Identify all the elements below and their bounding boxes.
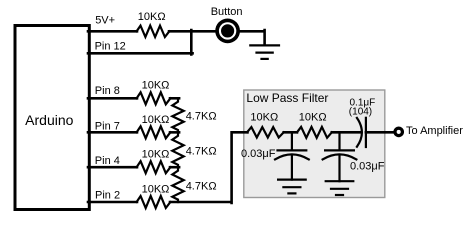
svg-text:10KΩ: 10KΩ (142, 149, 170, 161)
svg-text:4.7KΩ: 4.7KΩ (186, 146, 217, 158)
svg-text:Pin 8: Pin 8 (95, 85, 120, 97)
svg-text:5V+: 5V+ (95, 15, 115, 27)
svg-text:Pin 2: Pin 2 (95, 189, 120, 201)
svg-text:4.7KΩ: 4.7KΩ (186, 111, 217, 123)
svg-text:To Amplifier: To Amplifier (406, 125, 463, 137)
svg-text:4.7KΩ: 4.7KΩ (186, 180, 217, 192)
svg-text:0.03μF: 0.03μF (241, 148, 276, 160)
svg-text:10KΩ: 10KΩ (138, 11, 166, 23)
svg-text:0.03μF: 0.03μF (350, 161, 385, 173)
svg-text:Arduino: Arduino (25, 112, 73, 128)
svg-text:Pin 7: Pin 7 (95, 120, 120, 132)
svg-text:(104): (104) (349, 106, 372, 117)
svg-text:Pin 12: Pin 12 (95, 41, 126, 53)
svg-text:Button: Button (211, 6, 243, 18)
svg-text:Low Pass Filter: Low Pass Filter (246, 91, 328, 105)
svg-text:10KΩ: 10KΩ (142, 183, 170, 195)
svg-text:10KΩ: 10KΩ (299, 111, 327, 123)
svg-text:Pin 4: Pin 4 (95, 155, 120, 167)
svg-text:10KΩ: 10KΩ (250, 111, 278, 123)
svg-text:10KΩ: 10KΩ (142, 114, 170, 126)
svg-text:10KΩ: 10KΩ (142, 80, 170, 92)
